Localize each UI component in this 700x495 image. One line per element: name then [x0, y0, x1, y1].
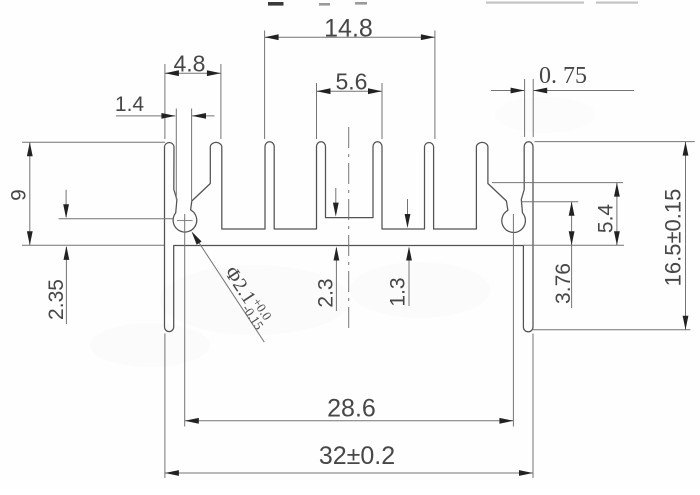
dim tail 1.4 left	[116, 115, 175, 117]
ext line fin6 right up	[434, 31, 436, 140]
ext line leg bottom right	[532, 329, 690, 331]
svg-text:3.76: 3.76	[552, 263, 575, 304]
heatsink profile outline	[165, 142, 534, 332]
arrow 16.5 bottom	[683, 316, 689, 330]
dim tail 1.3 upper	[407, 199, 409, 217]
cropped text remnant bars at top edge	[268, 2, 284, 6]
svg-text:16.5±0.15: 16.5±0.15	[661, 189, 686, 287]
left hole center tick	[177, 220, 193, 222]
svg-text:14.8: 14.8	[324, 14, 373, 42]
arrow 9 bottom	[27, 231, 33, 245]
ext line from left hole center down	[184, 214, 186, 427]
svg-text:32±0.2: 32±0.2	[319, 442, 395, 470]
ext line keyhole lower right	[521, 201, 578, 203]
leader line phi2.1	[193, 234, 264, 343]
svg-text:4.8: 4.8	[174, 50, 206, 76]
arrow 1.4 right	[192, 113, 206, 119]
ext line left hole center horizontal	[59, 218, 173, 220]
ext line fin5 right up	[381, 83, 383, 139]
arrow 1.3 upper	[405, 214, 411, 228]
arrow 32 right	[519, 470, 533, 476]
svg-text:1.3: 1.3	[387, 277, 410, 306]
ext line from right hole center down	[512, 214, 514, 427]
dim line 14.8	[265, 36, 435, 38]
dim tail 2.3 upper	[335, 188, 337, 206]
ext line keyhole shoulder right	[492, 182, 623, 184]
ext line right edge down	[532, 334, 534, 479]
arrow 3.76 top	[569, 202, 575, 216]
dim tail 2.35 upper	[65, 190, 67, 217]
arrow 28.6 right	[499, 418, 513, 424]
dim tail 0.75 left	[491, 90, 525, 92]
svg-text:1.4: 1.4	[115, 93, 145, 116]
ext line fin2 right up	[220, 64, 222, 139]
dim line 9	[29, 142, 31, 245]
dim line 16.5	[685, 142, 687, 330]
arrow 28.6 left	[185, 418, 199, 424]
arrow 2.35 upper	[63, 204, 69, 218]
ext line right wall outer up	[532, 79, 534, 137]
dim tail 0.75 right	[533, 90, 634, 92]
arrow 5.6 right	[368, 88, 382, 94]
arrow 2.3 upper	[333, 203, 339, 217]
ext line fin4 left up	[316, 83, 318, 139]
svg-text:5.6: 5.6	[336, 68, 368, 94]
arrow 4.8 left	[165, 70, 179, 76]
ext line slot left	[175, 109, 177, 200]
arrow 9 top	[27, 142, 33, 156]
arrow 5.4 bottom	[614, 231, 620, 245]
ext line top surface left	[22, 141, 165, 143]
dim tail 2.35 lower	[65, 247, 67, 324]
svg-text:9: 9	[8, 189, 31, 201]
ext line left edge up	[164, 64, 166, 139]
arrow 1.4 left	[161, 113, 175, 119]
arrow 4.8 right	[207, 70, 221, 76]
ext line fin3 left up	[264, 31, 266, 140]
centerline of profile	[348, 127, 350, 329]
ext line cap top right	[535, 141, 695, 143]
svg-text:28.6: 28.6	[327, 394, 376, 422]
arrow 2.3 lower	[334, 247, 340, 261]
ext line right wall inner up	[524, 79, 526, 137]
arrow 3.76 bottom	[569, 231, 575, 245]
dim line 3.76	[571, 202, 573, 308]
ext line base bottom right	[523, 244, 624, 246]
arrow 1.3 lower	[406, 247, 412, 261]
arrow phi2.1 leader	[192, 231, 202, 244]
arrow 5.4 top	[614, 183, 620, 197]
dim line 32	[165, 472, 533, 474]
dim line 4.8	[165, 72, 221, 74]
arrow 14.8 right	[421, 34, 435, 40]
arrow 5.6 left	[317, 88, 331, 94]
dim text phi2.1 with tolerance	[217, 262, 277, 333]
dim line 28.6	[185, 420, 514, 422]
arrow 16.5 top	[683, 142, 689, 156]
arrow 32 left	[165, 470, 179, 476]
svg-text:2.3: 2.3	[315, 278, 338, 307]
arrow 2.35 lower	[64, 246, 70, 260]
ext line left edge down	[164, 334, 166, 479]
arrow 0.75 left	[511, 88, 525, 94]
dim line 5.6	[317, 90, 383, 92]
ext line base bottom left	[22, 244, 164, 246]
dim tail 2.3 lower	[335, 248, 337, 311]
svg-text:2.35: 2.35	[45, 279, 68, 320]
dim tail 1.3 lower	[408, 248, 410, 306]
svg-text:0. 75: 0. 75	[539, 63, 587, 89]
dim tail 1.4 right	[192, 115, 215, 117]
arrow 14.8 left	[265, 34, 279, 40]
arrow 0.75 right	[533, 88, 547, 94]
svg-text:5.4: 5.4	[595, 204, 618, 234]
ext line slot right	[191, 109, 193, 201]
dim line 5.4	[616, 183, 618, 246]
